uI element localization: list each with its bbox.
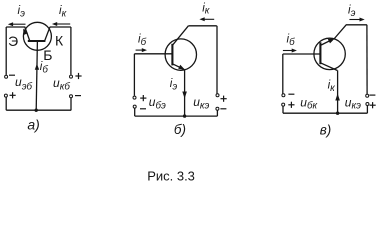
current arrow i_e head (scheme v) [360,18,365,22]
svg-text:iк: iк [328,79,336,94]
svg-text:iб: iб [138,33,147,48]
collector lead diagonal (scheme a) [45,27,50,41]
transistor base bar (scheme b) [171,44,173,66]
current arrow i_b head (scheme v) [292,49,297,53]
wire: base input (scheme b) [134,53,172,55]
terminal: u_be bottom (scheme b) [133,105,136,108]
svg-text:iб: iб [287,33,296,48]
svg-text:iб: iб [40,61,49,76]
svg-text:iэ: iэ [18,5,26,20]
wire: right vertical (scheme b) [216,26,218,94]
current arrow i_b shaft (scheme b) [136,49,143,51]
terminal: u_ke bottom (scheme v) [366,103,369,106]
svg-text:в): в) [320,122,332,137]
transistor VT (scheme b) circle [165,39,196,70]
emitter lead diagonal (scheme b) [172,64,184,70]
svg-text:iк: iк [202,2,210,16]
collector lead diagonal (scheme b) [172,26,188,46]
wire: left vertical (scheme v) [282,54,284,94]
polarity minus u_ke (scheme v) [369,94,375,96]
emitter lead diagonal (scheme v) [321,25,346,45]
terminal: u_bk top (scheme v) [282,94,285,97]
svg-text:uэб: uэб [15,75,33,92]
polarity plus u_ke [221,98,227,100]
svg-text:Б: Б [43,47,52,63]
polarity minus u_ke [220,108,226,110]
current arrow i_k (scheme v) [335,94,340,101]
svg-text:uбэ: uбэ [149,95,166,111]
wire: left stub (scheme b) [134,108,136,116]
wire: bottom rail (scheme a) [6,109,71,111]
wire: bottom rail (scheme v) [283,112,367,114]
collector lead diagonal (scheme v) [320,63,337,71]
polarity plus u_kb top [75,75,81,77]
polarity minus u_bk [288,93,294,95]
wire: left vertical (scheme a) [5,27,7,75]
wire: right stub (scheme v) [366,106,368,114]
svg-text:Рис. 3.3: Рис. 3.3 [147,169,195,184]
emitter arrowhead (scheme a) [23,29,28,35]
current arrow i_e head (scheme a) [8,22,13,26]
terminal: u_eb bottom (scheme a) [4,94,7,97]
wire: top emitter wire (scheme v) [346,24,367,26]
svg-text:Э: Э [8,33,18,49]
terminal: u_ke top (scheme v) [366,94,369,97]
svg-text:uбк: uбк [300,95,317,111]
svg-text:uкэ: uкэ [193,95,209,111]
junction base-rail (scheme a) [35,109,38,112]
terminal: u_ke bottom (scheme b) [216,107,219,110]
svg-text:iэ: iэ [170,78,178,93]
terminal: u_kb bottom (scheme a) [70,95,73,98]
polarity plus u_bk [288,104,294,106]
current arrow i_k shaft (scheme b) [203,18,215,20]
svg-text:uкб: uкб [53,76,70,93]
wire: emitter down (scheme b) [184,70,186,116]
wire: base input (scheme v) [283,53,321,55]
current arrow i_b shaft (scheme v) [283,50,292,52]
emitter arrowhead (scheme b) [178,65,185,70]
current arrow i_e shaft (scheme a) [11,23,26,25]
transistor VT (scheme a) circle [23,22,51,50]
wire: top-right collector wire (scheme a) [50,26,71,28]
svg-text:uкэ: uкэ [345,95,361,111]
terminal: u_kb top (scheme a) [70,75,73,78]
wire: right vertical (scheme v) [366,25,368,94]
svg-text:К: К [55,32,64,48]
wire: left vertical (scheme b) [133,54,135,96]
current arrow i_k shaft (scheme a) [55,23,70,25]
emitter lead diagonal (scheme a) [25,27,30,41]
polarity plus u_eb bottom [10,94,16,96]
wire: left stub to rail (scheme a) [5,97,7,110]
wire: collector down (scheme v) [337,70,339,113]
svg-text:б): б) [174,122,186,137]
wire: right stub to rail (scheme a) [70,98,72,110]
polarity plus u_ke (scheme v) [370,104,376,106]
polarity minus u_kb bottom [75,95,81,97]
wire: left stub (scheme v) [282,106,284,113]
transistor base bar (scheme v) [319,42,321,64]
current arrow i_k head (scheme a) [52,22,57,26]
terminal: u_be top (scheme b) [133,96,136,99]
wire: base lead down (scheme a) [36,41,37,110]
current arrow i_b (scheme a) [35,64,39,70]
polarity minus u_eb top [9,74,15,76]
emitter arrowhead (scheme v) [328,38,335,43]
wire: top-left emitter wire (scheme a) [6,26,25,28]
transistor VT (scheme v) circle [314,38,345,69]
svg-text:iэ: iэ [348,5,356,20]
current arrow i_k head (scheme b) [199,17,204,21]
svg-text:а): а) [27,117,39,133]
current arrow i_e (scheme b) [182,92,187,99]
polarity minus u_be [140,108,146,110]
terminal: u_bk bottom (scheme v) [282,103,285,106]
wire: right vertical (scheme a) [70,27,72,75]
junction collector-rail (scheme v) [336,112,339,115]
transistor base bar (scheme a) [28,40,46,42]
wire: right stub (scheme b) [216,110,218,116]
junction emitter-rail (scheme b) [183,114,186,117]
current arrow i_e shaft (scheme v) [349,19,360,21]
polarity plus u_be [140,97,146,99]
svg-text:iк: iк [59,5,67,20]
terminal: u_eb top (scheme a) [5,75,8,78]
terminal: u_ke top (scheme b) [216,94,219,97]
wire: top collector wire (scheme b) [188,25,216,27]
current arrow i_b head (scheme b) [142,48,147,52]
wire: bottom rail (scheme b) [135,115,218,117]
